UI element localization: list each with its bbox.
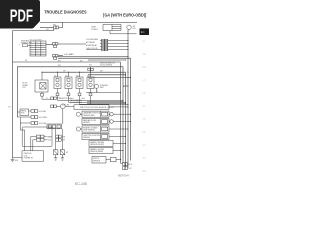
svg-text:SENSOR: SENSOR <box>93 160 101 162</box>
wire fuse table to connector F23 <box>46 44 53 46</box>
svg-text:[GA (WITH EURO-OBD)]: [GA (WITH EURO-OBD)] <box>103 13 147 18</box>
connector F24 <box>53 55 56 57</box>
ground spark plug 2 <box>61 155 64 160</box>
wire connector F27 lead <box>56 105 74 107</box>
bus line 3 <box>125 72 127 167</box>
connector row b <box>31 116 34 119</box>
ECCS relay label <box>35 80 48 92</box>
wire injector bottoms <box>58 89 91 94</box>
svg-text:F22: F22 <box>53 25 56 27</box>
wire connector F22 to riser <box>59 22 63 27</box>
svg-text:ECM: ECM <box>123 84 129 88</box>
wire sub feed row a <box>88 74 126 76</box>
wire relay drop <box>41 72 43 93</box>
sensor box R5 <box>89 141 113 147</box>
svg-text:TROUBLE DIAGNOSES: TROUBLE DIAGNOSES <box>44 9 87 14</box>
svg-text:M1: M1 <box>133 26 135 28</box>
svg-text:B/R: B/R <box>80 60 82 62</box>
fusible link row 4 <box>86 49 128 51</box>
wire fuse riser horizontal <box>13 29 54 31</box>
svg-text:SENSOR: SENSOR <box>83 122 91 124</box>
connector F26 <box>51 97 54 100</box>
fusible link row 2 <box>100 43 128 45</box>
circle component CC1 <box>60 104 65 109</box>
svg-text:No.2: No.2 <box>65 75 68 77</box>
wire relay to connector F26 <box>42 96 51 99</box>
connector bus end F101 <box>123 163 125 166</box>
bus line 2 <box>122 67 124 164</box>
wire row to bus 1 <box>77 55 128 57</box>
svg-text:SENSOR (FRONT): SENSOR (FRONT) <box>90 144 104 146</box>
wire main relay row to bus 3 <box>13 61 121 63</box>
wire row to bus 2b <box>88 59 126 61</box>
wire box to ground <box>13 157 23 159</box>
wire injector drops <box>58 72 91 77</box>
svg-text:TEMP SENSOR: TEMP SENSOR <box>83 130 95 132</box>
connector on feed <box>88 68 91 70</box>
svg-text:To EC-MAIN: To EC-MAIN <box>64 53 75 56</box>
resistor label box <box>20 109 29 116</box>
wire top right rows <box>87 101 126 103</box>
svg-text:B: B <box>97 91 98 93</box>
svg-text:COOLING FAN: COOLING FAN <box>86 38 98 41</box>
svg-text:W/L: W/L <box>25 60 28 62</box>
svg-text:To EC-COOL/F: To EC-COOL/F <box>86 48 97 50</box>
svg-text:To EC-SEN: To EC-SEN <box>39 117 48 119</box>
PDF badge <box>0 0 40 29</box>
bus line 5 <box>130 58 132 160</box>
svg-text:B: B <box>47 98 48 100</box>
wire fuse label box to table <box>28 44 30 46</box>
svg-text:To EC-MIL: To EC-MIL <box>39 111 47 113</box>
svg-text:W/R: W/R <box>100 71 103 73</box>
svg-text:No.3: No.3 <box>76 75 79 77</box>
wire box A to bus <box>109 106 128 108</box>
svg-text:GI: GI <box>143 40 146 43</box>
wire resistor row b <box>17 116 31 118</box>
connector injector pins <box>56 93 59 96</box>
wire connector stubs <box>90 67 92 72</box>
wire top feed line <box>40 21 137 23</box>
svg-text:POWER TR: POWER TR <box>24 157 34 159</box>
svg-text:EM: EM <box>143 66 147 69</box>
connector circle R2 <box>110 120 114 124</box>
svg-text:W/R: W/R <box>63 71 66 73</box>
label fuse table rows <box>31 41 44 55</box>
svg-text:B/W: B/W <box>89 64 92 66</box>
wire injector feed line <box>42 71 126 73</box>
injector no4 <box>87 77 94 89</box>
fuse block table <box>30 41 46 56</box>
wire distributor feed <box>20 130 24 151</box>
svg-text:No.3: No.3 <box>82 98 85 100</box>
svg-text:E13: E13 <box>15 160 18 162</box>
wire sub feed row b <box>88 76 131 78</box>
svg-text:F101: F101 <box>129 164 133 166</box>
svg-text:CONN-1: CONN-1 <box>91 29 98 31</box>
connector F23 <box>53 43 56 45</box>
svg-text:SER: SER <box>100 87 104 89</box>
wire resistor row a <box>29 110 32 112</box>
svg-text:(To EC-IGN/SG): (To EC-IGN/SG) <box>100 65 113 67</box>
wire box B drop <box>110 31 137 34</box>
svg-text:SENSOR: SENSOR <box>83 137 91 139</box>
side index letters <box>143 40 147 173</box>
spark plug 1 <box>54 150 58 155</box>
svg-text:PD: PD <box>143 131 147 134</box>
bus line 1 <box>120 62 122 163</box>
svg-text:ENGINE COOLANT: ENGINE COOLANT <box>83 127 97 130</box>
sensor box R6 <box>89 148 113 154</box>
svg-text:PDF: PDF <box>10 5 34 25</box>
connector circle M1 <box>127 25 131 29</box>
connector bus end M72 <box>123 167 125 170</box>
distributor box <box>22 127 52 147</box>
svg-text:TF: TF <box>143 118 146 121</box>
wire injector return 4 <box>90 96 92 105</box>
svg-text:F23: F23 <box>133 28 136 30</box>
svg-text:TOR: TOR <box>21 113 25 115</box>
connector row c <box>31 122 34 125</box>
wire battery feed to connector F22 <box>40 27 54 29</box>
svg-text:F24: F24 <box>23 87 26 89</box>
svg-text:No.4: No.4 <box>36 42 39 44</box>
wire CB feed riser <box>62 109 64 124</box>
svg-text:SENSOR (REF): SENSOR (REF) <box>83 115 95 117</box>
ignition coil row 1 <box>31 137 37 151</box>
svg-text:W/L: W/L <box>8 107 11 109</box>
fuse label box <box>23 44 28 47</box>
connector F22 <box>54 26 56 29</box>
sensor box R4 <box>82 133 109 139</box>
relay coil symbol <box>40 83 46 90</box>
condenser circle <box>94 84 98 88</box>
svg-text:AT: AT <box>143 105 146 108</box>
svg-text:EC-105: EC-105 <box>75 182 87 186</box>
svg-text:MEF504Y: MEF504Y <box>118 174 130 178</box>
wire injector return 1 <box>58 96 124 101</box>
circle component R1 left <box>76 112 80 116</box>
svg-text:No.1: No.1 <box>54 75 57 77</box>
fusible link row 3 <box>100 46 128 48</box>
connector circle R1 <box>110 112 114 116</box>
ignition coil power transistor box <box>22 151 44 161</box>
svg-text:EC: EC <box>141 30 145 34</box>
fusible link row 1 <box>100 40 128 42</box>
wire riser to resistor <box>17 111 20 113</box>
svg-text:Refer to EL-POWER.: Refer to EL-POWER. <box>30 39 43 42</box>
sensor box R1 <box>82 111 109 117</box>
connector relay bottom <box>41 93 44 96</box>
svg-text:SU: SU <box>143 157 147 160</box>
svg-text:F28: F28 <box>62 136 65 138</box>
svg-text:BR: BR <box>143 170 147 173</box>
ground spark plug 1 <box>54 155 57 160</box>
svg-text:HEATED OXYGEN: HEATED OXYGEN <box>90 141 104 144</box>
wire row to EC-MAIN label <box>58 55 63 57</box>
ignition coil row 2 <box>33 140 37 151</box>
svg-text:No.9: No.9 <box>36 53 39 55</box>
bus line 4 <box>127 30 129 168</box>
label wire colors <box>8 29 102 108</box>
svg-text:A/C RELAY: A/C RELAY <box>86 41 96 44</box>
svg-text:To EC-IGN: To EC-IGN <box>39 123 48 125</box>
wire injector return 2 <box>69 96 126 103</box>
wire ignition row to bus 5 <box>17 67 123 117</box>
svg-text:THROTTLE POSITION: THROTTLE POSITION <box>83 135 100 137</box>
connector row a <box>31 110 34 113</box>
sensor box R2 <box>82 119 109 125</box>
wire connector F23 to right rows <box>58 43 86 45</box>
svg-text:MA: MA <box>143 53 147 56</box>
EC section tab <box>140 28 150 35</box>
connector R7 <box>111 157 117 161</box>
svg-text:THROTTLE POSITION SENSOR CIRCU: THROTTLE POSITION SENSOR CIRCUIT <box>80 107 115 109</box>
sensor box R3 <box>82 126 109 132</box>
svg-text:AX: AX <box>143 144 147 147</box>
svg-text:LC: LC <box>143 79 146 82</box>
box A throttle position sensor <box>74 105 109 110</box>
svg-text:CAMSHAFT POSITION: CAMSHAFT POSITION <box>83 112 101 115</box>
spark plug 2 <box>60 150 64 155</box>
svg-text:F26: F26 <box>57 98 60 100</box>
svg-text:(To EC-TACHO): (To EC-TACHO) <box>70 101 82 104</box>
svg-text:PLUG: PLUG <box>47 140 52 142</box>
sensor box R7 <box>92 157 106 164</box>
svg-text:FE: FE <box>143 92 146 95</box>
injector no1 <box>54 77 61 89</box>
connector block CB <box>47 124 62 129</box>
wire riser to fuse table <box>19 44 22 46</box>
svg-text:F29: F29 <box>62 140 65 142</box>
svg-text:W/B: W/B <box>46 29 49 31</box>
svg-text:No.6: No.6 <box>36 46 39 48</box>
svg-text:SP: SP <box>66 152 68 154</box>
wire left riser <box>12 31 14 158</box>
svg-text:KNOCK: KNOCK <box>93 158 100 160</box>
wire injector return 3 <box>80 96 129 105</box>
svg-text:M72: M72 <box>129 168 132 170</box>
junction dots <box>41 72 42 73</box>
svg-text:To EC-SG: To EC-SG <box>62 105 70 107</box>
connector F27 <box>51 105 54 108</box>
wire resistor row c <box>20 118 31 131</box>
svg-text:B/R: B/R <box>58 60 60 62</box>
svg-text:No.8: No.8 <box>36 51 39 53</box>
joint connector box B <box>103 25 121 31</box>
wire spark plug drops <box>56 129 63 150</box>
svg-text:No.4: No.4 <box>87 75 90 77</box>
svg-text:HEATED OXYGEN: HEATED OXYGEN <box>90 148 104 151</box>
wire connector F24 row <box>58 55 77 57</box>
svg-text:No.5: No.5 <box>36 44 39 46</box>
svg-text:MASS AIR FLOW: MASS AIR FLOW <box>83 119 96 122</box>
ground E13 <box>11 158 15 162</box>
wire bus ends <box>121 163 129 167</box>
injector no2 <box>65 77 72 89</box>
wire condenser ground row <box>86 92 121 94</box>
svg-text:No.7: No.7 <box>36 48 39 50</box>
wire row to bus 2 <box>58 57 131 59</box>
wire condenser drop <box>96 88 98 92</box>
injector no3 <box>76 77 83 89</box>
svg-text:HORN RELAY: HORN RELAY <box>86 44 98 47</box>
svg-text:FUSE AND: FUSE AND <box>21 40 30 43</box>
